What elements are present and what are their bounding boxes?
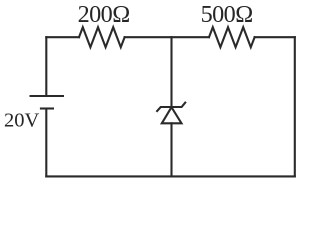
wire bottom rail bbox=[46, 175, 294, 177]
wire left side upper bbox=[45, 37, 47, 96]
svg-text:500Ω: 500Ω bbox=[201, 1, 253, 28]
zener diode bbox=[156, 102, 186, 124]
wire middle branch upper bbox=[170, 37, 172, 107]
svg-text:200Ω: 200Ω bbox=[78, 1, 130, 28]
resistor 200Ω bbox=[79, 27, 125, 47]
wire top rail left segment bbox=[46, 36, 79, 38]
wire right side bbox=[294, 37, 296, 176]
wire middle branch lower bbox=[170, 123, 172, 176]
svg-text:20V: 20V bbox=[4, 110, 40, 132]
wire top rail right segment bbox=[255, 36, 295, 38]
resistor 500Ω bbox=[209, 27, 255, 47]
battery 20V bbox=[30, 96, 65, 109]
wire left side lower bbox=[45, 109, 47, 177]
wire top rail middle segment bbox=[125, 36, 209, 38]
